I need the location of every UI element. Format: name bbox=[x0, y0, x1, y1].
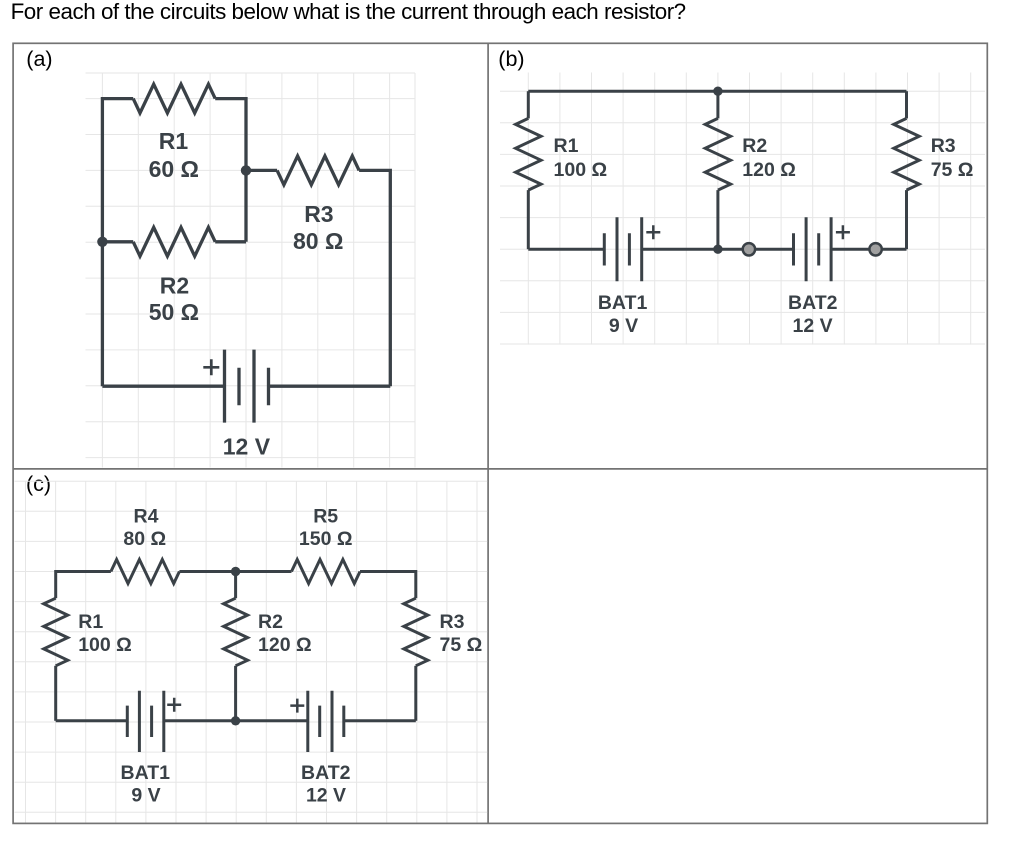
svg-text:R2: R2 bbox=[160, 273, 189, 299]
wire: (c) left vertical bottom stub bbox=[54, 666, 57, 721]
wire: (b) top rail bbox=[528, 90, 906, 93]
battery BAT2 plus sign (c) bbox=[290, 699, 304, 713]
junction node (c) bottom bbox=[231, 716, 240, 725]
wire: (a) R2 right flat to inner vertical bbox=[215, 240, 246, 243]
wire: (c) between R4 and R5 bbox=[179, 570, 291, 573]
resistor R4 (80 ohm) zigzag bbox=[111, 560, 179, 584]
wire: (b) bottom rail left bbox=[528, 248, 604, 251]
svg-text:R1: R1 bbox=[554, 135, 579, 157]
svg-text:75 Ω: 75 Ω bbox=[931, 159, 974, 181]
svg-text:75 Ω: 75 Ω bbox=[440, 634, 483, 656]
wire: (c) left vertical top stub bbox=[54, 570, 57, 598]
wire: (a) R3 right flat + right vertical bbox=[359, 170, 390, 386]
wire: (c) bottom rail middle bbox=[164, 719, 308, 722]
battery BAT1 9V (b) bbox=[604, 217, 641, 281]
svg-text:9 V: 9 V bbox=[131, 785, 160, 807]
resistor R2 (120 ohm) zigzag bbox=[705, 118, 730, 190]
terminal node circle (b) left bbox=[743, 243, 755, 255]
wire: (a) left vertical bbox=[101, 97, 104, 386]
svg-text:60 Ω: 60 Ω bbox=[149, 156, 199, 182]
wire: (a) bottom left segment bbox=[102, 385, 224, 388]
svg-text:BAT1: BAT1 bbox=[598, 292, 648, 314]
wire: (b) middle vertical top stub bbox=[716, 91, 719, 118]
resistor R3 (75 ohm) zigzag bbox=[404, 598, 428, 666]
svg-text:150 Ω: 150 Ω bbox=[299, 528, 353, 550]
wire: (a) top-left flat to R1 bbox=[102, 97, 133, 100]
wire: (c) right vertical bottom stub bbox=[414, 666, 417, 721]
svg-text:(a): (a) bbox=[26, 47, 52, 71]
wire: (c) bottom rail right bbox=[344, 719, 416, 722]
svg-text:80 Ω: 80 Ω bbox=[293, 228, 343, 254]
svg-text:R3: R3 bbox=[931, 135, 956, 157]
wire: (a) bottom right segment bbox=[269, 385, 391, 388]
wire: (c) R5 right flat bbox=[360, 570, 416, 573]
wire: (b) left vertical top stub bbox=[527, 91, 530, 118]
svg-text:9 V: 9 V bbox=[609, 315, 638, 337]
svg-text:12 V: 12 V bbox=[306, 785, 346, 807]
wire: (b) right vertical bottom stub bbox=[905, 190, 908, 249]
wire: (b) right vertical top stub bbox=[905, 91, 908, 118]
wire: (c) middle vertical top stub bbox=[234, 572, 237, 599]
svg-text:R1: R1 bbox=[159, 128, 189, 154]
svg-text:BAT2: BAT2 bbox=[788, 292, 838, 314]
wire: (b) bottom rail middle bbox=[642, 248, 794, 251]
wire: (a) junction to R3 bbox=[246, 169, 277, 172]
junction node (a) left bbox=[97, 237, 107, 247]
svg-text:R5: R5 bbox=[313, 506, 338, 528]
svg-text:R3: R3 bbox=[304, 201, 333, 227]
resistor R2 (120 ohm) zigzag bbox=[224, 598, 248, 666]
svg-text:R1: R1 bbox=[78, 611, 103, 633]
svg-text:50 Ω: 50 Ω bbox=[149, 299, 199, 325]
battery plus sign (a) bbox=[203, 359, 219, 375]
junction node (a) R3 branch bbox=[241, 165, 251, 175]
junction node (b) top bbox=[713, 87, 722, 96]
resistor R3 (75 ohm) zigzag bbox=[894, 118, 919, 190]
svg-text:12 V: 12 V bbox=[793, 315, 833, 337]
battery BAT1 plus sign bbox=[646, 225, 660, 239]
wire: (b) left vertical bottom stub bbox=[527, 190, 530, 249]
battery BAT2 plus sign bbox=[836, 225, 850, 239]
junction node (b) bottom bbox=[713, 245, 722, 254]
svg-text:R4: R4 bbox=[134, 506, 159, 528]
svg-text:R2: R2 bbox=[742, 135, 767, 157]
resistor R3 (80 ohm) zigzag bbox=[277, 156, 359, 185]
svg-text:(b): (b) bbox=[498, 47, 524, 71]
resistor R1 (60 ohm) zigzag bbox=[133, 84, 215, 113]
wire: (b) middle vertical bottom stub bbox=[716, 190, 719, 249]
svg-text:120 Ω: 120 Ω bbox=[742, 159, 796, 181]
wire: (b) bottom rail right bbox=[831, 248, 906, 251]
battery 12V (a) bbox=[225, 350, 269, 423]
svg-text:100 Ω: 100 Ω bbox=[78, 634, 132, 656]
wire: (c) bottom rail left bbox=[56, 719, 128, 722]
junction node (c) top bbox=[231, 567, 240, 576]
svg-text:80 Ω: 80 Ω bbox=[123, 528, 166, 550]
battery BAT2 12V (c) bbox=[308, 691, 344, 752]
svg-text:BAT2: BAT2 bbox=[301, 762, 351, 784]
battery BAT1 9V (c) bbox=[127, 691, 164, 752]
wire: (a) R1 right flat + inner vertical down to R2 level bbox=[215, 99, 246, 242]
resistor R5 (150 ohm) zigzag bbox=[292, 560, 361, 584]
resistor R1 (100 ohm) zigzag bbox=[516, 118, 541, 190]
svg-text:For each of the circuits below: For each of the circuits below what is t… bbox=[11, 0, 686, 24]
battery BAT2 12V (b) bbox=[794, 217, 832, 281]
svg-text:R3: R3 bbox=[440, 611, 465, 633]
svg-text:R2: R2 bbox=[258, 611, 283, 633]
terminal node circle (b) right bbox=[869, 243, 881, 255]
wire: (c) middle vertical bottom stub bbox=[234, 666, 237, 721]
battery BAT1 plus sign (c) bbox=[167, 698, 181, 712]
wire: (a) R2 left flat bbox=[102, 240, 133, 243]
wire: (c) top-left flat to R4 bbox=[56, 570, 111, 573]
svg-text:100 Ω: 100 Ω bbox=[554, 159, 608, 181]
svg-text:120 Ω: 120 Ω bbox=[258, 634, 312, 656]
svg-text:(c): (c) bbox=[26, 472, 51, 496]
wire: (c) right vertical top stub bbox=[414, 570, 417, 598]
svg-text:BAT1: BAT1 bbox=[121, 762, 171, 784]
resistor R1 (100 ohm) zigzag bbox=[44, 598, 68, 666]
resistor R2 (50 ohm) zigzag bbox=[133, 227, 215, 256]
svg-text:12 V: 12 V bbox=[223, 433, 271, 459]
